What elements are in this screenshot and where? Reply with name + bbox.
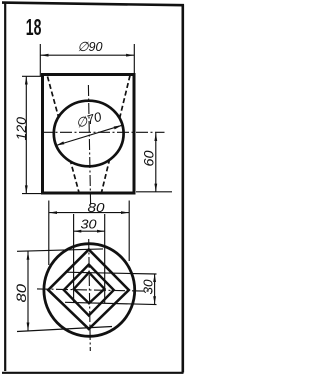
- dimension Ø70 arrow lower-left: [56, 141, 64, 145]
- dimension 80 top arrow right: [121, 211, 129, 214]
- front view sphere circle Ø70: [54, 101, 124, 167]
- dimension 80 left line: [27, 251, 29, 331]
- dimension 120 arrow bottom: [25, 185, 28, 193]
- svg-text:18: 18: [26, 14, 42, 40]
- dimension 30 top extension left: [73, 214, 75, 303]
- dimension 30 top arrow right: [97, 230, 105, 233]
- dimension 30 top extension right: [104, 214, 106, 303]
- dimension Ø90 arrow right: [126, 54, 134, 57]
- dimension 80 left arrow top: [27, 252, 30, 260]
- border right: [182, 5, 185, 373]
- hidden cone edge left (dashed): [48, 77, 80, 193]
- dimension 80 top extension right: [128, 201, 130, 262]
- dimension 30 right line: [154, 274, 156, 305]
- dimension 80 top extension left: [48, 201, 50, 266]
- svg-text:30: 30: [141, 279, 156, 295]
- front view horizontal centerline: [41, 131, 165, 133]
- svg-text:120: 120: [14, 116, 29, 140]
- dimension 30 right arrow top: [153, 274, 156, 282]
- dimension 60 arrow top: [154, 133, 157, 141]
- bottom view horizontal chord top (ext of 30 right): [65, 272, 157, 274]
- svg-text:80: 80: [88, 200, 106, 215]
- front view outline rectangle: [43, 75, 135, 194]
- dimension 80 left arrow bottom: [27, 323, 30, 331]
- dimension 60 extension bottom: [136, 191, 172, 193]
- bottom view small diamond: [74, 272, 105, 303]
- bottom view middle diamond: [64, 265, 114, 316]
- border top: [2, 3, 184, 6]
- dimension Ø90 extension line left: [39, 44, 41, 77]
- dimension 80 top line: [49, 212, 129, 214]
- dimension Ø70 leader line: [56, 125, 122, 145]
- dimension 80 left extension bottom: [17, 327, 112, 332]
- dimension 120 extension top: [22, 75, 43, 77]
- bottom view vertical centerline: [89, 239, 91, 351]
- bottom view circle: [44, 244, 135, 337]
- dimension Ø90 line: [40, 54, 134, 56]
- dimension 30 top line: [74, 230, 105, 232]
- bottom view big diamond (square rotated 45): [48, 250, 129, 330]
- dimension 120 arrow top: [25, 76, 28, 84]
- dimension 80 top arrow left: [49, 211, 57, 214]
- dimension 30 top arrow left: [74, 230, 82, 233]
- dimension 80 left extension top: [17, 249, 103, 251]
- dimension 30 right arrow bottom: [153, 296, 156, 304]
- dimension 120 line: [25, 76, 27, 193]
- dimension 60 arrow bottom: [154, 184, 157, 192]
- border left: [4, 3, 6, 371]
- svg-text:∅90: ∅90: [78, 39, 104, 54]
- dimension Ø90 arrow left: [40, 54, 48, 57]
- front view vertical centerline: [88, 85, 90, 205]
- bottom view horizontal centerline: [37, 289, 152, 291]
- dimension 120 extension bottom: [22, 193, 41, 195]
- border bottom: [2, 372, 184, 374]
- svg-text:60: 60: [141, 150, 157, 166]
- dimension 60 line: [155, 133, 157, 192]
- svg-text:30: 30: [81, 216, 98, 231]
- bottom view horizontal chord bottom (ext of 30 right): [65, 302, 157, 304]
- hidden cone edge right (dashed): [102, 76, 131, 193]
- dimension Ø90 extension line right: [133, 44, 135, 75]
- svg-text:80: 80: [14, 283, 29, 302]
- dimension Ø70 arrow upper-right: [114, 125, 122, 129]
